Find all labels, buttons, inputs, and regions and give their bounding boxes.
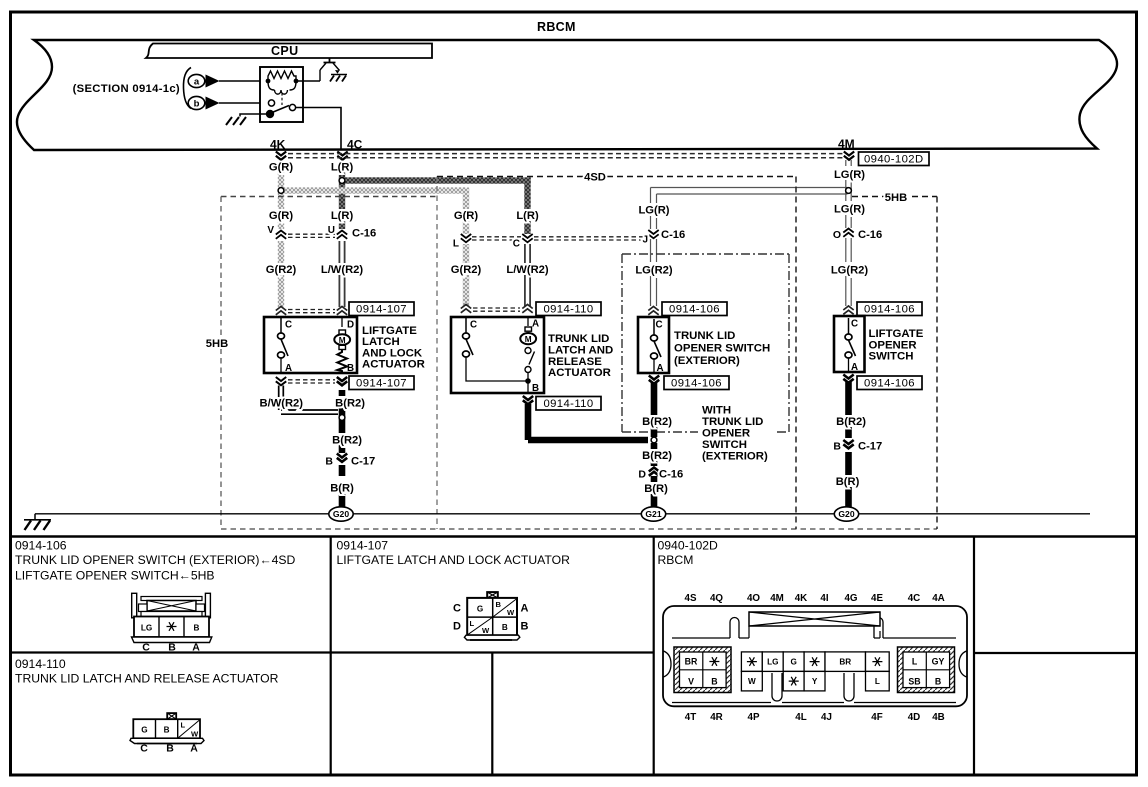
svg-text:LG(R): LG(R) bbox=[834, 204, 865, 216]
svg-text:4G: 4G bbox=[844, 593, 857, 604]
svg-text:G20: G20 bbox=[333, 509, 349, 519]
svg-text:B: B bbox=[935, 677, 941, 687]
svg-text:W: W bbox=[482, 626, 490, 635]
svg-text:B(R2): B(R2) bbox=[332, 435, 362, 447]
svg-text:4D: 4D bbox=[908, 712, 921, 723]
svg-text:LG(R2): LG(R2) bbox=[831, 265, 869, 277]
svg-text:TRUNK LID LATCH AND RELEASE AC: TRUNK LID LATCH AND RELEASE ACTUATOR bbox=[15, 672, 279, 686]
svg-text:C-17: C-17 bbox=[858, 441, 882, 453]
svg-text:4S: 4S bbox=[685, 593, 697, 604]
svg-text:(EXTERIOR): (EXTERIOR) bbox=[674, 355, 740, 367]
svg-text:C: C bbox=[285, 320, 292, 331]
svg-text:4I: 4I bbox=[820, 593, 828, 604]
svg-text:LG(R): LG(R) bbox=[834, 169, 865, 181]
svg-text:G(R): G(R) bbox=[269, 210, 294, 222]
svg-text:4K: 4K bbox=[270, 138, 286, 152]
svg-text:L(R): L(R) bbox=[331, 210, 354, 222]
svg-text:L/W(R2): L/W(R2) bbox=[506, 264, 549, 276]
svg-text:LG(R): LG(R) bbox=[638, 205, 669, 217]
svg-text:C-16: C-16 bbox=[659, 469, 683, 481]
svg-text:4A: 4A bbox=[932, 593, 945, 604]
svg-text:(EXTERIOR): (EXTERIOR) bbox=[702, 451, 768, 463]
svg-text:C: C bbox=[656, 320, 663, 331]
svg-text:TRUNK LID: TRUNK LID bbox=[548, 333, 609, 345]
svg-text:AND LOCK: AND LOCK bbox=[362, 347, 423, 359]
svg-text:V: V bbox=[688, 677, 694, 687]
svg-text:SWITCH: SWITCH bbox=[869, 351, 914, 363]
svg-text:A: A bbox=[532, 319, 539, 330]
svg-text:J: J bbox=[642, 235, 648, 246]
svg-text:L: L bbox=[470, 619, 475, 628]
svg-text:B: B bbox=[194, 624, 200, 633]
svg-text:4O: 4O bbox=[747, 593, 760, 604]
svg-text:BR: BR bbox=[685, 657, 698, 667]
svg-text:L: L bbox=[453, 239, 459, 250]
svg-text:L(R): L(R) bbox=[516, 210, 539, 222]
svg-text:M: M bbox=[339, 336, 346, 345]
svg-text:TRUNK LID OPENER SWITCH (EXTER: TRUNK LID OPENER SWITCH (EXTERIOR)←4SD bbox=[15, 553, 296, 567]
svg-text:D: D bbox=[453, 621, 461, 633]
svg-text:B: B bbox=[532, 383, 539, 394]
svg-text:C-16: C-16 bbox=[858, 229, 882, 241]
svg-text:0914-110: 0914-110 bbox=[543, 398, 593, 410]
svg-text:SWITCH: SWITCH bbox=[702, 439, 747, 451]
svg-text:A: A bbox=[851, 362, 858, 373]
svg-text:A: A bbox=[192, 642, 200, 654]
svg-text:RELEASE: RELEASE bbox=[548, 356, 602, 368]
svg-text:D: D bbox=[638, 469, 646, 481]
svg-text:4L: 4L bbox=[795, 712, 806, 723]
svg-text:4Q: 4Q bbox=[710, 593, 723, 604]
svg-text:0914-107: 0914-107 bbox=[337, 539, 389, 553]
svg-text:B: B bbox=[502, 623, 508, 632]
svg-text:0914-107: 0914-107 bbox=[356, 304, 407, 316]
svg-text:LATCH: LATCH bbox=[362, 336, 400, 348]
svg-text:OPENER: OPENER bbox=[869, 339, 917, 351]
svg-text:0914-110: 0914-110 bbox=[15, 657, 66, 671]
svg-text:4P: 4P bbox=[748, 712, 760, 723]
svg-text:M: M bbox=[525, 335, 532, 344]
svg-text:C: C bbox=[142, 642, 150, 654]
svg-text:B(R2): B(R2) bbox=[642, 416, 672, 428]
svg-text:4T: 4T bbox=[685, 712, 696, 723]
svg-text:B(R2): B(R2) bbox=[836, 416, 866, 428]
svg-text:0940-102D: 0940-102D bbox=[658, 539, 719, 553]
svg-text:RBCM: RBCM bbox=[537, 20, 576, 34]
svg-text:B(R): B(R) bbox=[836, 476, 860, 488]
svg-text:TRUNK LID: TRUNK LID bbox=[702, 416, 763, 428]
svg-text:C: C bbox=[453, 603, 461, 615]
svg-text:L: L bbox=[875, 677, 880, 686]
svg-text:0914-106: 0914-106 bbox=[864, 304, 915, 316]
svg-text:D: D bbox=[347, 320, 354, 331]
svg-text:5HB: 5HB bbox=[206, 338, 228, 350]
svg-text:B: B bbox=[347, 363, 354, 374]
svg-text:OPENER: OPENER bbox=[702, 428, 750, 440]
svg-text:ACTUATOR: ACTUATOR bbox=[548, 367, 611, 379]
svg-text:G(R2): G(R2) bbox=[451, 264, 482, 276]
svg-text:B(R): B(R) bbox=[330, 483, 354, 495]
svg-text:LIFTGATE OPENER SWITCH←5HB: LIFTGATE OPENER SWITCH←5HB bbox=[15, 569, 215, 583]
svg-text:O: O bbox=[833, 229, 841, 241]
svg-text:0914-107: 0914-107 bbox=[356, 378, 407, 390]
svg-text:LIFTGATE: LIFTGATE bbox=[869, 328, 924, 340]
svg-text:C: C bbox=[470, 320, 477, 331]
svg-text:OPENER SWITCH: OPENER SWITCH bbox=[674, 343, 770, 355]
svg-text:0914-106: 0914-106 bbox=[669, 304, 720, 316]
svg-text:W: W bbox=[507, 608, 515, 617]
svg-text:4E: 4E bbox=[871, 593, 883, 604]
svg-text:b: b bbox=[194, 98, 200, 109]
svg-text:4J: 4J bbox=[821, 712, 832, 723]
svg-text:U: U bbox=[328, 225, 335, 236]
svg-text:4C: 4C bbox=[347, 138, 363, 152]
svg-text:0914-106: 0914-106 bbox=[671, 378, 722, 390]
svg-text:LIFTGATE LATCH AND LOCK ACTUAT: LIFTGATE LATCH AND LOCK ACTUATOR bbox=[337, 553, 571, 567]
svg-text:4R: 4R bbox=[710, 712, 723, 723]
svg-text:C: C bbox=[513, 239, 520, 250]
svg-text:C: C bbox=[851, 319, 858, 330]
svg-text:RBCM: RBCM bbox=[658, 553, 694, 567]
svg-text:4C: 4C bbox=[908, 593, 921, 604]
svg-text:B(R2): B(R2) bbox=[642, 450, 672, 462]
svg-text:W: W bbox=[191, 730, 199, 739]
svg-text:B: B bbox=[168, 642, 176, 654]
svg-text:B: B bbox=[711, 677, 717, 687]
svg-text:4M: 4M bbox=[770, 593, 784, 604]
svg-text:C-16: C-16 bbox=[661, 229, 685, 241]
svg-text:G20: G20 bbox=[838, 509, 854, 519]
svg-text:L/W(R2): L/W(R2) bbox=[321, 264, 364, 276]
svg-text:C: C bbox=[140, 743, 148, 755]
svg-text:0914-106: 0914-106 bbox=[864, 378, 915, 390]
svg-text:C-16: C-16 bbox=[352, 228, 376, 240]
svg-text:L: L bbox=[181, 721, 186, 730]
svg-text:G21: G21 bbox=[645, 509, 661, 519]
svg-text:0914-110: 0914-110 bbox=[543, 304, 593, 316]
svg-text:G(R): G(R) bbox=[454, 210, 479, 222]
svg-text:V: V bbox=[267, 225, 274, 236]
svg-text:B: B bbox=[166, 743, 174, 755]
svg-text:WITH: WITH bbox=[702, 405, 731, 417]
svg-text:4M: 4M bbox=[838, 137, 855, 151]
svg-text:ACTUATOR: ACTUATOR bbox=[362, 359, 425, 371]
svg-text:0914-106: 0914-106 bbox=[15, 539, 67, 553]
svg-text:B: B bbox=[521, 621, 529, 633]
svg-text:TRUNK LID: TRUNK LID bbox=[674, 330, 735, 342]
svg-text:B/W(R2): B/W(R2) bbox=[260, 398, 304, 410]
svg-text:4B: 4B bbox=[932, 712, 945, 723]
svg-text:A: A bbox=[521, 603, 529, 615]
svg-text:B: B bbox=[496, 600, 502, 609]
svg-text:4K: 4K bbox=[795, 593, 808, 604]
svg-text:a: a bbox=[194, 76, 200, 87]
svg-text:W: W bbox=[748, 677, 756, 686]
svg-text:G: G bbox=[790, 658, 796, 667]
svg-text:(SECTION 0914-1c): (SECTION 0914-1c) bbox=[73, 83, 180, 95]
svg-text:G(R2): G(R2) bbox=[266, 264, 297, 276]
svg-text:C-17: C-17 bbox=[351, 456, 375, 468]
svg-text:Y: Y bbox=[812, 677, 818, 686]
svg-text:4F: 4F bbox=[871, 712, 882, 723]
svg-text:G: G bbox=[477, 605, 483, 614]
svg-text:B: B bbox=[325, 456, 333, 468]
svg-text:B(R2): B(R2) bbox=[335, 398, 365, 410]
svg-text:SB: SB bbox=[908, 677, 920, 687]
svg-text:G: G bbox=[141, 726, 147, 735]
svg-text:L: L bbox=[912, 657, 918, 667]
svg-text:GY: GY bbox=[932, 657, 945, 667]
svg-text:A: A bbox=[285, 363, 292, 374]
svg-text:LATCH AND: LATCH AND bbox=[548, 344, 613, 356]
svg-text:B(R): B(R) bbox=[644, 483, 668, 495]
svg-text:0940-102D: 0940-102D bbox=[864, 154, 924, 166]
svg-text:LG(R2): LG(R2) bbox=[635, 265, 673, 277]
svg-text:LG: LG bbox=[141, 624, 152, 633]
svg-text:A: A bbox=[190, 743, 198, 755]
svg-text:B: B bbox=[833, 441, 841, 453]
svg-text:BR: BR bbox=[839, 658, 851, 667]
svg-text:LG: LG bbox=[767, 658, 778, 667]
svg-text:CPU: CPU bbox=[271, 44, 299, 58]
svg-text:L(R): L(R) bbox=[331, 162, 354, 174]
svg-text:5HB: 5HB bbox=[885, 192, 907, 204]
svg-text:B: B bbox=[164, 726, 170, 735]
svg-text:A: A bbox=[657, 363, 664, 374]
svg-text:G(R): G(R) bbox=[269, 162, 294, 174]
svg-text:LIFTGATE: LIFTGATE bbox=[362, 325, 417, 337]
svg-text:4SD: 4SD bbox=[584, 172, 606, 184]
